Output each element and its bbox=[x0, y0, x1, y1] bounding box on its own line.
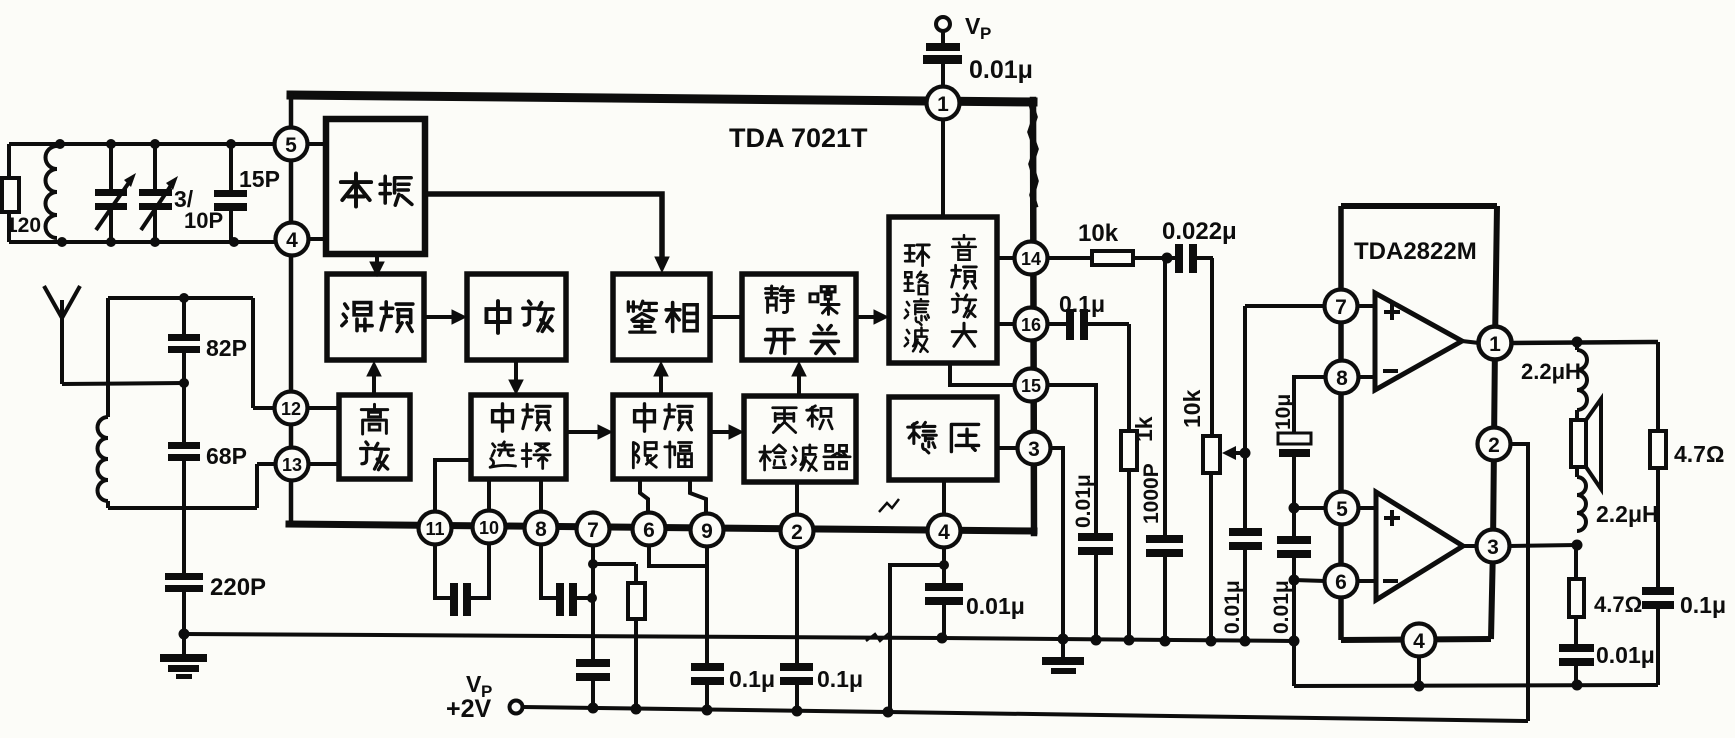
pin 2 bbox=[1478, 428, 1511, 461]
svg-text:220P: 220P bbox=[210, 574, 266, 601]
pin 9 bbox=[691, 514, 724, 547]
capacitor 68P bbox=[182, 353, 186, 443]
wire pin2 to +2V rail bbox=[1510, 444, 1528, 721]
svg-text:0.01μ: 0.01μ bbox=[1072, 474, 1095, 528]
node pin4 return junction bbox=[1414, 681, 1425, 692]
node ground bus left end bbox=[179, 629, 190, 640]
svg-text:TDA2822M: TDA2822M bbox=[1354, 238, 1477, 265]
node pin6 junction bbox=[1289, 575, 1300, 586]
block IF limiter 中频限幅 bbox=[613, 395, 710, 479]
svg-text:2.2μH: 2.2μH bbox=[1521, 359, 1581, 384]
wire pin7 column bbox=[591, 546, 595, 660]
wire pin15 column bbox=[1048, 385, 1096, 533]
wire pin3 to ground bbox=[1051, 448, 1063, 639]
wire IF amp to IF select arrow bbox=[514, 360, 518, 384]
block IF select 中频选择 bbox=[471, 395, 566, 479]
wire IF limiter to pin9 bbox=[690, 479, 706, 530]
svg-text:4: 4 bbox=[286, 229, 298, 252]
wire TDA2822 pin8 lead bbox=[1294, 377, 1326, 433]
wire tank top rail bbox=[9, 142, 274, 146]
wire ant net top bbox=[108, 296, 253, 300]
wire to TDA2822 pin6 bbox=[1294, 580, 1325, 581]
block local oscillator 本振 bbox=[326, 119, 425, 254]
pin 16 bbox=[1015, 308, 1048, 341]
capacitor 220P bbox=[182, 461, 186, 574]
wire TDA2822 pin7 lead bbox=[1245, 304, 1325, 308]
svg-text:6: 6 bbox=[1335, 571, 1347, 594]
svg-text:8: 8 bbox=[1336, 367, 1348, 390]
svg-text:10: 10 bbox=[479, 518, 499, 538]
capacitor 0.01u bottom right bbox=[1559, 644, 1594, 652]
svg-text:0.01μ: 0.01μ bbox=[1596, 642, 1655, 668]
node pot to ground bus bbox=[1206, 636, 1217, 647]
pin 3 bbox=[1018, 432, 1051, 465]
inductor L2 antenna coil bbox=[98, 417, 109, 501]
wire pin3 to regulator bbox=[997, 446, 1034, 450]
node ant net top bbox=[179, 293, 189, 303]
block phase detector 鉴相 bbox=[613, 274, 710, 360]
wire pin15 to loop filter box bbox=[950, 363, 1031, 385]
wire A2 to pin3 bbox=[1463, 544, 1477, 548]
wire pin8 drop bbox=[541, 545, 556, 598]
svg-text:2.2μH: 2.2μH bbox=[1596, 501, 1659, 527]
wire wiper column to TDA2822 pin7 bbox=[1243, 306, 1247, 528]
IC U1 outline left edge bbox=[289, 95, 294, 524]
wire pin1 to loop filter box bbox=[941, 103, 945, 217]
pin 2 bbox=[781, 515, 814, 548]
svg-text:3: 3 bbox=[1487, 536, 1499, 559]
pin 8 bbox=[525, 512, 558, 545]
ground bbox=[1061, 639, 1065, 658]
resistor 4.7 ohm right bbox=[1656, 342, 1660, 431]
wire IF limiter to product detector arrow bbox=[710, 430, 733, 434]
capacitor 15P bbox=[229, 144, 233, 191]
antenna bbox=[44, 286, 62, 318]
pin 6 bbox=[633, 513, 666, 546]
svg-text:2: 2 bbox=[1488, 434, 1500, 457]
svg-text:P: P bbox=[980, 24, 991, 43]
svg-text:V: V bbox=[466, 671, 482, 697]
wire mixer to IF amp arrow bbox=[424, 315, 456, 319]
capacitor 0.022u bbox=[1167, 256, 1175, 260]
variable capacitor CV2 3/10P bbox=[153, 144, 157, 190]
pin 3 output bbox=[1477, 530, 1510, 563]
node dots tank top rail bbox=[55, 139, 65, 149]
wire pin6 to A2 bbox=[1358, 579, 1376, 583]
wire ground bus bbox=[184, 634, 1294, 641]
svg-text:0.1μ: 0.1μ bbox=[1680, 592, 1726, 618]
wire lower return line bbox=[1294, 685, 1658, 686]
capacitor C8-7 bbox=[556, 583, 564, 616]
svg-text:120: 120 bbox=[6, 214, 41, 237]
block mixer 混频 bbox=[327, 274, 424, 360]
svg-text:+2V: +2V bbox=[446, 695, 492, 723]
wire product detector to pin2 bbox=[795, 482, 799, 531]
capacitor 0.01u wiper bbox=[1229, 528, 1262, 536]
wire RF amp to mixer arrow bbox=[372, 372, 376, 395]
svg-text:0.01μ: 0.01μ bbox=[1270, 580, 1293, 634]
block product detector 乘积检波器 bbox=[744, 396, 856, 482]
resistor 1k bbox=[1127, 324, 1131, 431]
svg-text:4: 4 bbox=[1413, 630, 1425, 653]
svg-text:TDA 7021T: TDA 7021T bbox=[729, 123, 868, 153]
svg-text:4: 4 bbox=[938, 521, 950, 544]
wire pin4 column bbox=[942, 548, 946, 583]
svg-text:6: 6 bbox=[643, 519, 655, 542]
pin 4 bottom bbox=[928, 515, 961, 548]
node dots +2V rail bbox=[588, 703, 599, 714]
wire antenna to cap column bbox=[62, 383, 184, 384]
wire A1 to pin1 bbox=[1462, 341, 1479, 343]
Vp +2V terminal bbox=[510, 701, 523, 714]
wire IF limiter to pin6 bbox=[640, 479, 648, 529]
svg-text:10k: 10k bbox=[1179, 389, 1205, 428]
wire pin1 output bbox=[1511, 342, 1658, 343]
wire pin7 to resistor bbox=[593, 562, 636, 566]
svg-text:4.7Ω: 4.7Ω bbox=[1674, 441, 1724, 467]
wire pin12 to RF amp bbox=[291, 406, 339, 410]
pin 14 bbox=[1015, 242, 1048, 275]
node output3 junction bbox=[1572, 540, 1583, 551]
IC U1 outline bottom bus bbox=[289, 524, 1034, 531]
node pin15 cap to ground bus bbox=[1091, 635, 1102, 646]
node output1 junction bbox=[1572, 337, 1583, 348]
svg-text:0.1μ: 0.1μ bbox=[1059, 291, 1105, 317]
Vp terminal top bbox=[936, 17, 950, 31]
wire pin6 jog to pin9 column bbox=[649, 546, 707, 566]
svg-text:15: 15 bbox=[1021, 376, 1041, 396]
svg-text:1k: 1k bbox=[1131, 416, 1157, 442]
op-amp A2 triangle bbox=[1376, 492, 1463, 600]
node ground bus end bbox=[1289, 636, 1300, 647]
svg-text:9: 9 bbox=[701, 520, 713, 543]
IC U1 TDA7021T outline top bus bbox=[291, 95, 1033, 102]
pin 5 bbox=[1326, 492, 1359, 525]
wire pin14 to audio amp bbox=[997, 256, 1031, 260]
wire to TDA2822 pin5 bbox=[1294, 506, 1326, 510]
svg-text:4.7Ω: 4.7Ω bbox=[1594, 592, 1642, 617]
pin 8 bbox=[1326, 361, 1359, 394]
pin 11 bbox=[419, 512, 452, 545]
node dots tank bottom rail bbox=[57, 237, 67, 247]
pin 15 bbox=[1015, 369, 1048, 402]
pin 13 bbox=[276, 448, 309, 481]
wire IF select to IF limiter arrow bbox=[566, 430, 602, 434]
wire pin5 to A2 bbox=[1358, 506, 1376, 510]
svg-text:11: 11 bbox=[425, 519, 444, 539]
wire +2V supply rail bbox=[523, 707, 1528, 721]
svg-text:1: 1 bbox=[1489, 333, 1501, 356]
node 10k to 0.022u junction bbox=[1162, 253, 1173, 264]
svg-text:V: V bbox=[965, 13, 981, 39]
node wiper junction bbox=[1240, 448, 1251, 459]
wire pin4 to +2V rail bbox=[890, 565, 944, 712]
wire pin7 to A1 bbox=[1358, 304, 1375, 308]
wire local osc to mixer arrow bbox=[375, 254, 379, 266]
wire pin13 to RF amp bbox=[292, 462, 339, 466]
wire pin11 to IF select bbox=[435, 460, 471, 528]
pin 1 output bbox=[1479, 327, 1512, 360]
svg-text:68P: 68P bbox=[206, 443, 247, 469]
node pin5 junction bbox=[1289, 503, 1300, 514]
block loop filter / audio amp 环路滤波 音频放大 bbox=[889, 217, 997, 363]
svg-text:12: 12 bbox=[281, 399, 301, 419]
svg-text:5: 5 bbox=[1336, 498, 1348, 521]
capacitor C4 0.01u bbox=[925, 583, 963, 591]
IC U2 TDA2822M outline bbox=[1341, 203, 1497, 209]
block regulator 稳压 bbox=[889, 397, 997, 480]
svg-text:3: 3 bbox=[1028, 438, 1040, 461]
svg-text:0.1μ: 0.1μ bbox=[817, 666, 863, 692]
svg-text:82P: 82P bbox=[206, 335, 247, 361]
resistor 10k horizontal bbox=[1047, 256, 1092, 260]
svg-text:1: 1 bbox=[937, 93, 949, 116]
wire ant net left bbox=[106, 298, 110, 417]
block IF amp 中放 bbox=[467, 274, 566, 360]
capacitor 0.1u at pin16 bbox=[1048, 322, 1066, 326]
pin 7 bbox=[577, 513, 610, 546]
svg-text:10μ: 10μ bbox=[1272, 394, 1295, 430]
wire ant net bottom bbox=[106, 501, 110, 508]
capacitor C7 bbox=[576, 659, 610, 667]
block mute switch 静噪开关 bbox=[742, 274, 856, 360]
wire tank bottom rail bbox=[9, 240, 275, 244]
inductor L1 tank coil bbox=[45, 146, 57, 238]
inductor 2.2uH bottom bbox=[1575, 467, 1579, 477]
resistor 120 bbox=[7, 144, 11, 178]
capacitor 10u polarized bbox=[1278, 433, 1311, 444]
capacitor C2 0.1u bbox=[780, 663, 813, 671]
wire pin5 to local osc bbox=[291, 142, 326, 146]
svg-text:0.01μ: 0.01μ bbox=[1221, 580, 1244, 634]
capacitor C9 0.1u bbox=[691, 663, 724, 671]
wire phase detector to mute switch bbox=[710, 315, 742, 319]
wire pin16 to loop filter bbox=[997, 322, 1031, 326]
svg-text:16: 16 bbox=[1021, 315, 1041, 335]
capacitor C11-10 bbox=[450, 583, 458, 616]
pin 6 bbox=[1325, 565, 1358, 598]
potentiometer 10k volume bbox=[1210, 258, 1214, 436]
scan artifact squiggle bbox=[866, 633, 889, 641]
wire mute switch to loop filter arrow bbox=[856, 315, 878, 319]
capacitor 0.01u pin5-6 bbox=[1277, 536, 1311, 544]
wire ant net right to pin12 bbox=[251, 298, 255, 408]
svg-text:13: 13 bbox=[282, 455, 302, 475]
svg-text:8: 8 bbox=[535, 518, 547, 541]
wire product detector to mute switch arrow bbox=[797, 372, 801, 396]
svg-text:5: 5 bbox=[285, 134, 297, 157]
inductor 2.2uH top bbox=[1575, 342, 1579, 350]
scan smudge on right edge bbox=[1030, 104, 1036, 205]
wire regulator to pin4 bbox=[942, 480, 946, 531]
wire local osc output to phase detector bbox=[425, 194, 662, 258]
node 1k to ground bus bbox=[1124, 635, 1135, 646]
variable capacitor CV1 bbox=[109, 144, 113, 190]
wire pin4 to return line bbox=[1417, 656, 1421, 686]
wire pin8 to A1 bbox=[1358, 375, 1375, 379]
pin 12 bbox=[275, 392, 308, 425]
capacitor 82P bbox=[182, 298, 186, 335]
wire pin2 column bbox=[795, 548, 799, 663]
wire pin10 to IF select bbox=[487, 479, 491, 527]
potentiometer wiper arrow bbox=[1231, 451, 1245, 455]
node snubber to return line bbox=[1572, 680, 1583, 691]
ground symbol left bbox=[182, 634, 186, 655]
wire pin4 to local osc bbox=[292, 237, 326, 241]
capacitor 1000P bbox=[1163, 258, 1167, 535]
node wiper cap to ground bus bbox=[1240, 636, 1251, 647]
block RF amp 高放 bbox=[339, 395, 410, 479]
wire pin9 column bbox=[705, 547, 709, 663]
resistor R7 bbox=[634, 564, 638, 583]
svg-text:14: 14 bbox=[1021, 249, 1041, 269]
resistor 4.7 ohm left bbox=[1574, 545, 1578, 579]
IC U1 outline right edge bbox=[1033, 100, 1034, 533]
wire pin8 to IF select bbox=[539, 479, 543, 528]
pin 7 bbox=[1325, 290, 1358, 323]
svg-text:0.01μ: 0.01μ bbox=[969, 56, 1033, 84]
svg-text:10k: 10k bbox=[1078, 220, 1119, 247]
pin 10 bbox=[473, 511, 506, 544]
svg-text:7: 7 bbox=[587, 519, 599, 542]
node 1000P to ground bus bbox=[1160, 636, 1171, 647]
svg-text:7: 7 bbox=[1335, 296, 1347, 319]
svg-text:10P: 10P bbox=[184, 208, 223, 233]
capacitor 0.01u at Vp bbox=[926, 43, 960, 51]
pin 5 bbox=[275, 128, 308, 161]
pin 4 bbox=[1403, 624, 1436, 657]
svg-text:0.1μ: 0.1μ bbox=[729, 666, 775, 692]
capacitor 0.1u right bbox=[1656, 468, 1660, 587]
wire ant net bottom right to pin13 bbox=[255, 464, 259, 508]
pin 1 bbox=[927, 87, 960, 120]
node antenna junction bbox=[179, 378, 189, 388]
svg-text:15P: 15P bbox=[239, 166, 280, 192]
wire pin11 drop bbox=[435, 545, 450, 598]
svg-text:0.01μ: 0.01μ bbox=[966, 593, 1025, 619]
speaker LS1 bbox=[1575, 410, 1579, 420]
svg-text:2: 2 bbox=[791, 521, 803, 544]
svg-text:0.022μ: 0.022μ bbox=[1162, 218, 1237, 245]
wire IF limiter to phase detector arrow bbox=[659, 372, 663, 395]
op-amp A1 triangle bbox=[1375, 293, 1462, 390]
capacitor C15 0.01u bbox=[1078, 533, 1113, 541]
node dots ground bus bbox=[937, 633, 948, 644]
wire pin3 output bbox=[1509, 545, 1577, 546]
svg-text:1000P: 1000P bbox=[1140, 463, 1163, 524]
pin 4 bbox=[276, 223, 309, 256]
